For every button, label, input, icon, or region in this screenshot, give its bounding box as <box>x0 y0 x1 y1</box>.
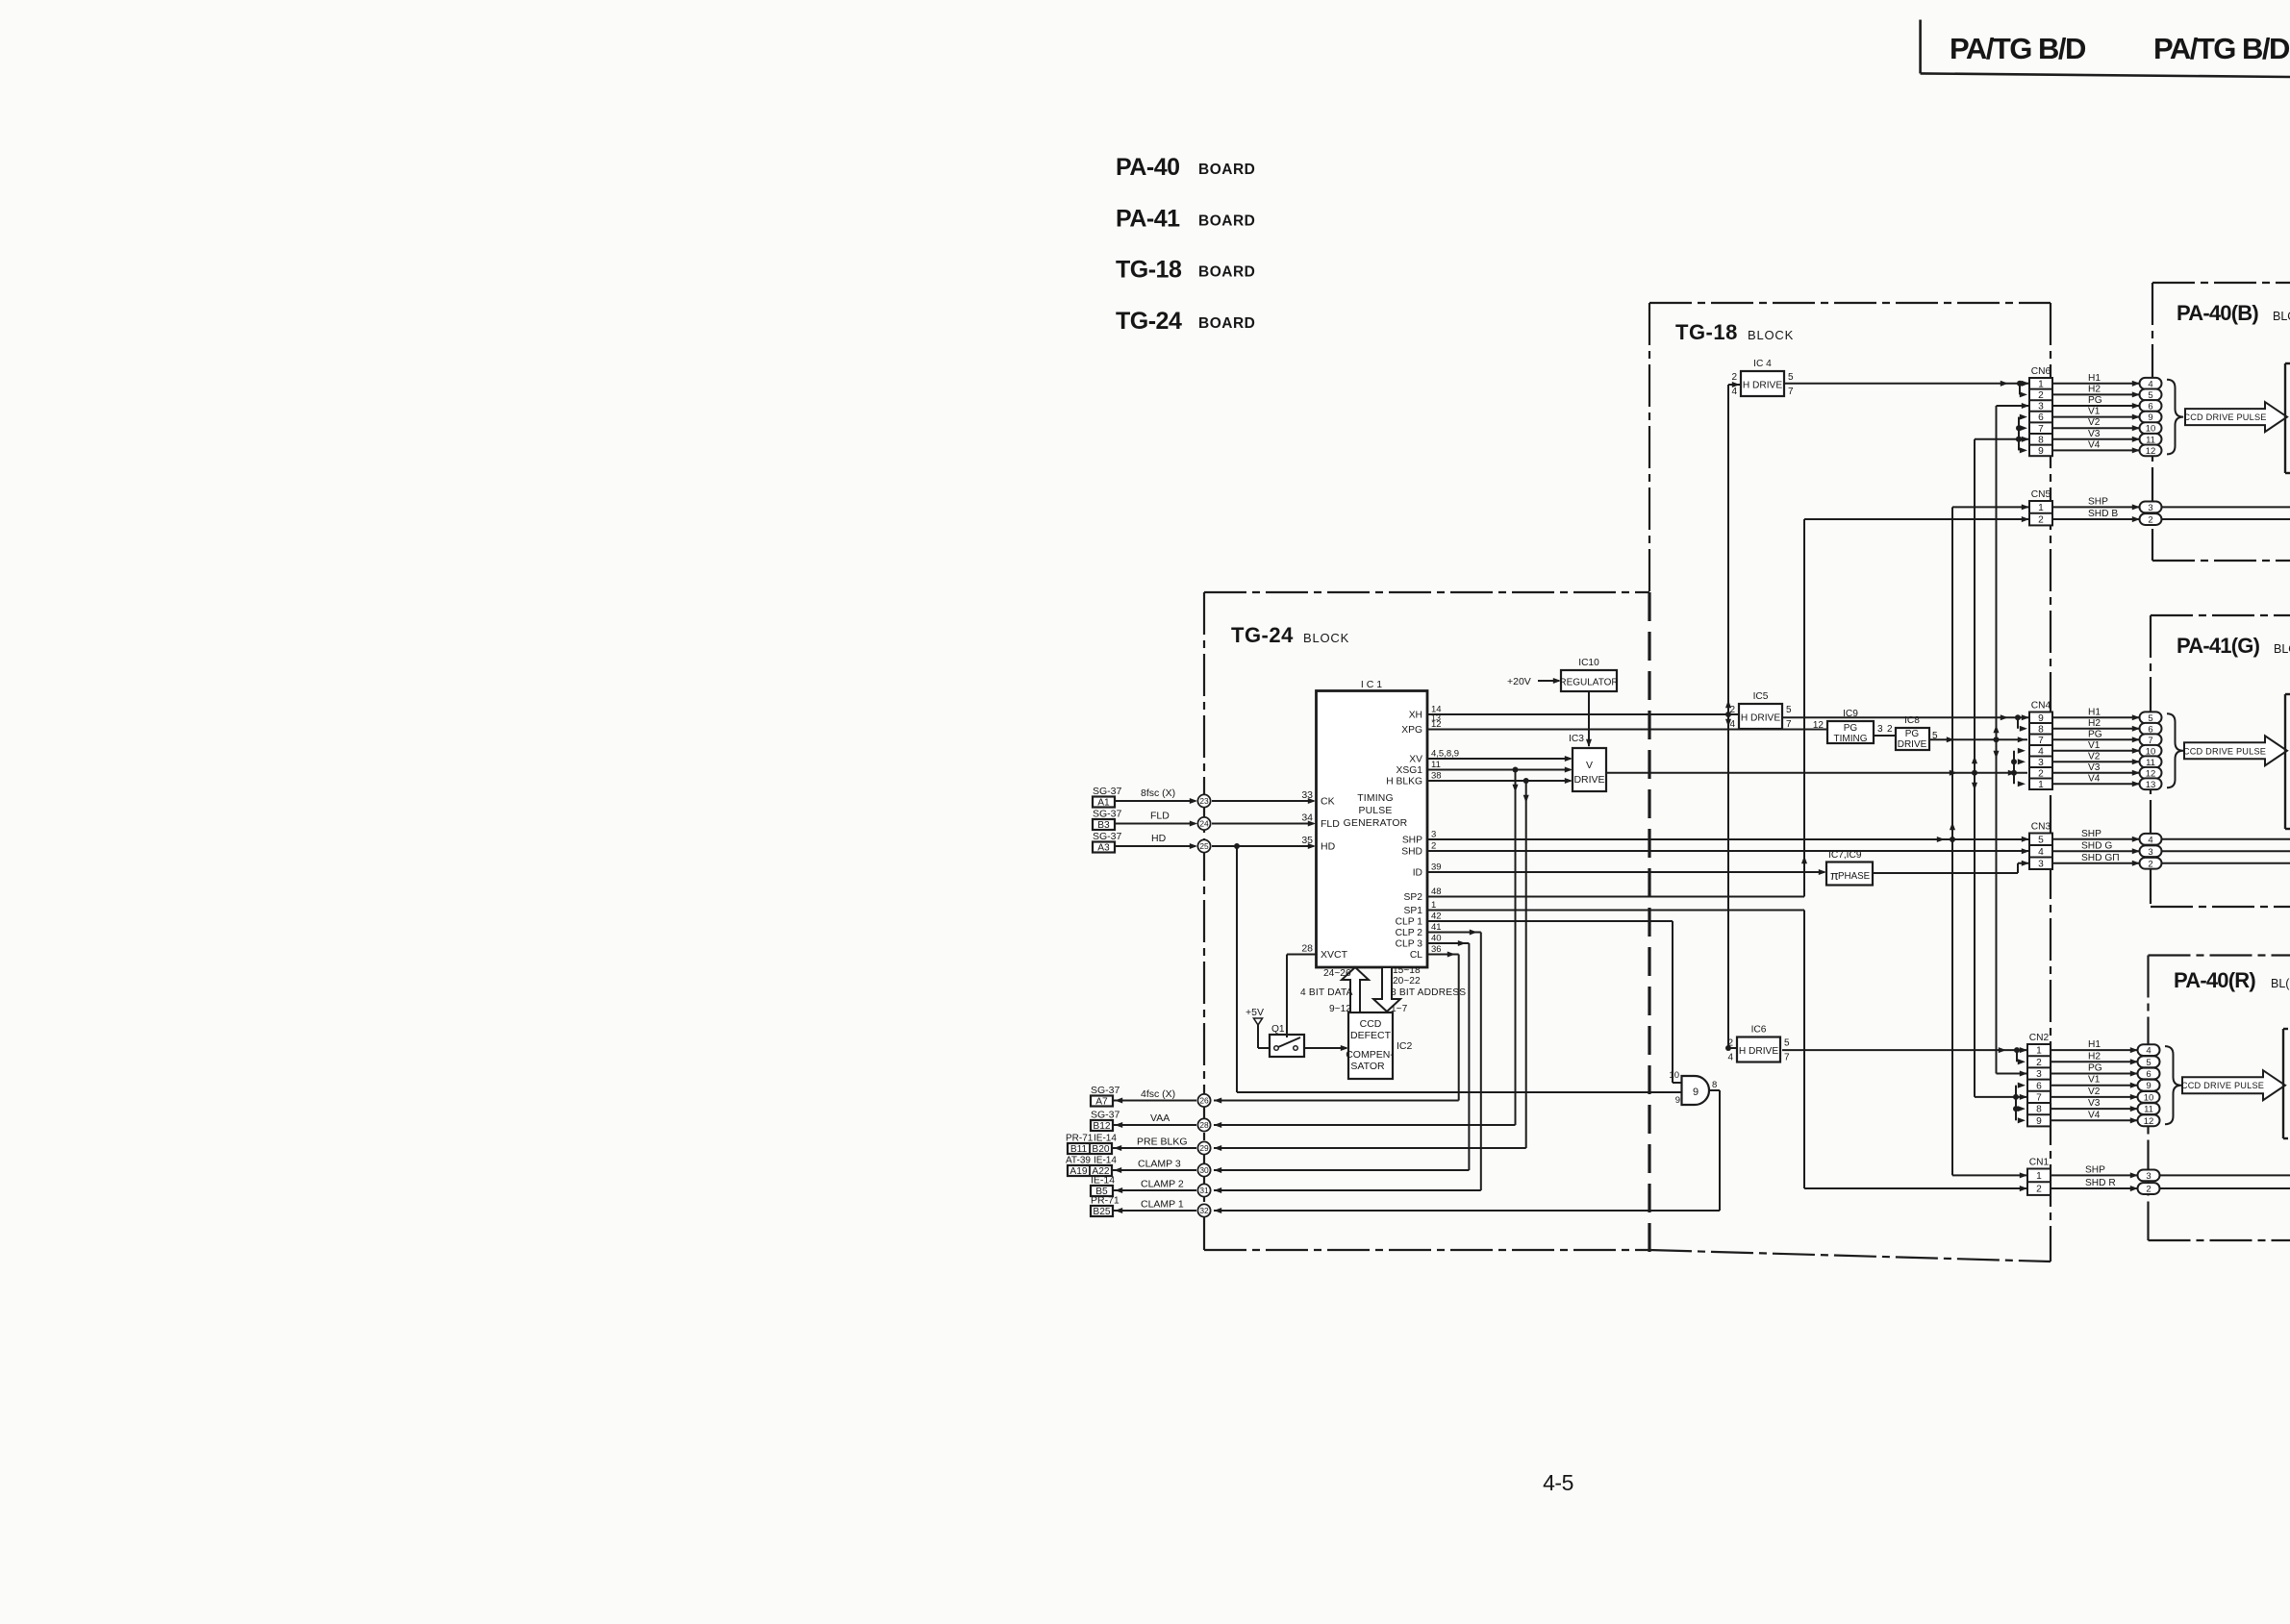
wire IC9 pin3 to IC8 pin2 <box>1874 724 1896 736</box>
wire net XSG1 into IC3 <box>1427 766 1573 772</box>
svg-text:CN1: CN1 <box>2029 1158 2050 1168</box>
svg-text:1~7: 1~7 <box>1391 1004 1408 1014</box>
svg-text:V1: V1 <box>2088 407 2101 417</box>
svg-text:V3: V3 <box>2088 1098 2101 1109</box>
svg-text:H1: H1 <box>2088 707 2101 717</box>
output connector AT-39/IE-14 A19|A22 (CLAMP 3) <box>1066 1156 1117 1178</box>
svg-text:38: 38 <box>1431 770 1442 781</box>
svg-text:SHD G: SHD G <box>2081 840 2112 851</box>
wire VAA line to terminal 28 <box>1214 1122 1516 1128</box>
node terminal 23 <box>1197 794 1210 807</box>
wire net H1-B (IC4 out to CN6 pin1) <box>1784 381 2029 387</box>
CCD DRIVE PULSE arrow (B) <box>2183 402 2287 432</box>
svg-text:IC 4: IC 4 <box>1753 359 1772 369</box>
brace PA-40(B) <box>2167 380 2183 455</box>
svg-text:2: 2 <box>2036 1185 2042 1195</box>
node terminal 31 <box>1197 1184 1210 1196</box>
svg-text:5: 5 <box>1788 372 1794 383</box>
wire V distribution vertical <box>1972 437 2029 1100</box>
CN2 pin ladder <box>2013 1047 2026 1123</box>
svg-text:CCD DRIVE PULSE: CCD DRIVE PULSE <box>2183 412 2266 422</box>
svg-text:33: 33 <box>1301 789 1313 801</box>
transistor Q1 (defect comp switch) <box>1270 1024 1304 1057</box>
CN6 pin ladder <box>2016 381 2027 454</box>
svg-text:TG-24: TG-24 <box>1116 308 1182 335</box>
node terminal 30 <box>1197 1163 1210 1176</box>
svg-text:CLP 2: CLP 2 <box>1396 928 1423 938</box>
svg-text:PG: PG <box>2088 395 2102 406</box>
wire gate output to terminal 32 (CLAMP 1) <box>1214 1090 1720 1213</box>
svg-text:CN5: CN5 <box>2031 489 2051 500</box>
svg-text:IC2: IC2 <box>1397 1040 1413 1052</box>
svg-text:BLO: BLO <box>2273 310 2290 323</box>
svg-text:AT-39: AT-39 <box>1066 1156 1091 1166</box>
svg-text:PR-71: PR-71 <box>1091 1195 1120 1207</box>
bus arrow 8 BIT ADDRESS (down) <box>1373 967 1400 1012</box>
svg-text:A19: A19 <box>1070 1166 1087 1177</box>
svg-text:30: 30 <box>1199 1165 1209 1175</box>
svg-text:PG: PG <box>2088 1063 2102 1074</box>
wires CN2 to PA-40(R) pins (H1..V4) <box>2051 1039 2138 1123</box>
svg-text:28: 28 <box>1199 1120 1209 1130</box>
PA-41(G) block title <box>2177 634 2290 658</box>
svg-text:BL(: BL( <box>2271 977 2290 990</box>
svg-text:31: 31 <box>1199 1186 1209 1195</box>
title box rule <box>1921 20 2290 78</box>
wire PG distribution vertical <box>1993 403 2029 1077</box>
svg-text:H DRIVE: H DRIVE <box>1743 381 1783 391</box>
svg-text:4: 4 <box>2148 835 2152 845</box>
svg-text:1: 1 <box>2038 780 2044 790</box>
svg-text:H DRIVE: H DRIVE <box>1739 1046 1779 1057</box>
svg-text:41: 41 <box>1431 922 1442 933</box>
input connector SG-37/A1 (8fsc) <box>1093 786 1122 809</box>
brace PA-41(G) <box>2167 713 2183 787</box>
wire XVCT from IC1 to Q1 branch <box>1287 954 1317 956</box>
wires CN6 to PA-40(B) pins (H1..V4) <box>2052 373 2140 454</box>
svg-text:SHP: SHP <box>2081 829 2101 839</box>
label +20V and feed wire <box>1507 676 1561 687</box>
svg-text:2: 2 <box>2148 515 2152 526</box>
svg-text:PA-40(B): PA-40(B) <box>2177 301 2258 325</box>
svg-text:Q1: Q1 <box>1271 1024 1285 1035</box>
svg-text:V2: V2 <box>2088 751 2101 762</box>
svg-text:CLP 3: CLP 3 <box>1396 939 1423 950</box>
node terminal 25 <box>1197 839 1210 852</box>
IC IC5 (H DRIVE) <box>1729 691 1792 730</box>
board list item PA-41 BOARD <box>1116 206 1255 233</box>
svg-text:V2: V2 <box>2088 1087 2101 1097</box>
svg-text:8: 8 <box>1712 1080 1717 1090</box>
svg-text:IE-14: IE-14 <box>1094 1134 1117 1144</box>
svg-text:40: 40 <box>1431 933 1442 943</box>
svg-text:PULSE: PULSE <box>1358 806 1392 816</box>
svg-text:CN4: CN4 <box>2031 701 2051 712</box>
IC U2 (IC2 CCD DEFECT COMPENSATOR) <box>1346 1012 1412 1079</box>
svg-text:+20V: +20V <box>1507 676 1531 687</box>
svg-text:H1: H1 <box>2088 1039 2101 1050</box>
svg-text:FLD: FLD <box>1321 818 1340 830</box>
connector CN1 <box>2027 1158 2051 1195</box>
svg-text:24~26: 24~26 <box>1323 968 1351 979</box>
svg-text:SP2: SP2 <box>1404 892 1423 903</box>
wires PA-40(B) SHP/SHD to page edge <box>2162 507 2290 519</box>
PA-40(B) CCD pins 4-12 <box>2140 378 2162 457</box>
svg-text:PA-41: PA-41 <box>1116 206 1180 233</box>
svg-text:CCD: CCD <box>1360 1018 1382 1030</box>
svg-text:15~18: 15~18 <box>1393 965 1421 976</box>
svg-text:42: 42 <box>1431 911 1442 921</box>
wire H BLKG branch down to PRE BLKG line <box>1523 781 1529 1148</box>
svg-text:10: 10 <box>1669 1070 1679 1081</box>
svg-text:PR-71: PR-71 <box>1066 1134 1094 1144</box>
svg-text:ID: ID <box>1413 868 1422 879</box>
svg-text:SHD B: SHD B <box>2088 509 2118 519</box>
svg-text:36: 36 <box>1431 944 1442 955</box>
svg-text:SG-37: SG-37 <box>1091 1110 1120 1121</box>
wire net H BLKG into IC3 <box>1427 778 1573 784</box>
svg-text:V1: V1 <box>2088 740 2101 751</box>
output connector IE-14/B5 (CLAMP 2) <box>1091 1175 1115 1198</box>
svg-text:BLO: BLO <box>2274 642 2290 656</box>
wire net SP2 up to SHD B <box>1427 516 2029 896</box>
svg-text:V3: V3 <box>2088 429 2101 439</box>
svg-text:XV: XV <box>1409 755 1422 765</box>
svg-text:7: 7 <box>1788 387 1794 397</box>
wire terminal 29 to B20 <box>1112 1137 1196 1152</box>
input connector SG-37/B3 (FLD) <box>1093 809 1122 832</box>
wire net SP1 down to SHD R <box>1427 911 2027 1192</box>
svg-text:4: 4 <box>1731 387 1737 397</box>
svg-text:CL: CL <box>1410 950 1422 961</box>
svg-text:B20: B20 <box>1092 1144 1109 1155</box>
wire terminal 24 to IC1 FLD <box>1212 820 1316 826</box>
svg-text:SHP: SHP <box>1402 836 1422 846</box>
IC U10 (IC10 REGULATOR) <box>1559 658 1618 691</box>
svg-text:IC3: IC3 <box>1569 734 1584 744</box>
svg-text:TIMING: TIMING <box>1834 734 1868 744</box>
wire terminal 23 to IC1 CK <box>1212 798 1316 804</box>
svg-text:BLOCK: BLOCK <box>1303 631 1349 645</box>
svg-text:SG-37: SG-37 <box>1093 786 1122 797</box>
svg-text:BOARD: BOARD <box>1198 264 1255 281</box>
PA-40(B) block frame <box>2152 283 2290 561</box>
svg-text:PA/TG B/D: PA/TG B/D <box>2153 32 2290 65</box>
board list item TG-24 BOARD <box>1116 308 1255 335</box>
brace PA-40(R) <box>2165 1046 2181 1124</box>
IC U7 (IC7,IC9 pi-PHASE) <box>1826 850 1873 886</box>
output connector SG-37/B12 (VAA) <box>1091 1110 1120 1133</box>
svg-text:4: 4 <box>2146 1046 2151 1057</box>
wire net H1-R (IC6 out to CN2 pin1) <box>1782 1047 2027 1053</box>
gate 9 (clamp AND gate) <box>1669 1070 1717 1106</box>
svg-text:H DRIVE: H DRIVE <box>1741 713 1781 724</box>
svg-text:39: 39 <box>1431 862 1442 872</box>
IC1 left pin labels <box>1301 789 1347 961</box>
svg-text:48: 48 <box>1431 887 1442 897</box>
svg-text:B25: B25 <box>1093 1207 1110 1217</box>
connector CN6 <box>2029 366 2052 457</box>
svg-text:5: 5 <box>2146 1058 2151 1068</box>
svg-text:CN3: CN3 <box>2031 822 2051 833</box>
svg-text:PRE BLKG: PRE BLKG <box>1137 1137 1188 1148</box>
svg-text:HD: HD <box>1151 833 1167 844</box>
svg-text:SHD R: SHD R <box>2085 1178 2116 1188</box>
svg-text:FLD: FLD <box>1150 811 1170 822</box>
svg-text:4 BIT DATA: 4 BIT DATA <box>1300 987 1353 998</box>
svg-text:5: 5 <box>2038 835 2044 845</box>
svg-text:PA-40(R): PA-40(R) <box>2174 968 2255 992</box>
svg-text:11: 11 <box>2144 1105 2153 1115</box>
wire IC10 to IC3 <box>1586 691 1592 747</box>
node terminal 24 <box>1197 817 1210 830</box>
svg-text:13: 13 <box>2146 780 2156 790</box>
svg-text:BOARD: BOARD <box>1198 315 1255 332</box>
svg-text:5: 5 <box>1784 1038 1790 1049</box>
svg-text:3: 3 <box>2148 503 2152 513</box>
input connector SG-37/A3 (HD) <box>1093 831 1122 854</box>
svg-text:8: 8 <box>2036 1105 2042 1115</box>
svg-text:DRIVE: DRIVE <box>1573 774 1604 786</box>
svg-text:SHP: SHP <box>2088 496 2108 507</box>
wire terminal 30 to A22 <box>1112 1159 1196 1174</box>
wire net V (IC3 out to CN4 pin2) <box>1606 770 2027 776</box>
svg-text:CLAMP 1: CLAMP 1 <box>1141 1199 1184 1211</box>
svg-text:COMPEN-: COMPEN- <box>1346 1049 1394 1061</box>
svg-text:7: 7 <box>1784 1053 1790 1063</box>
svg-text:IC10: IC10 <box>1578 658 1599 668</box>
svg-text:CLAMP 3: CLAMP 3 <box>1138 1159 1181 1170</box>
svg-text:PA/TG B/D: PA/TG B/D <box>1950 32 2086 65</box>
svg-text:2: 2 <box>2148 859 2152 869</box>
svg-text:8 BIT ADDRESS: 8 BIT ADDRESS <box>1391 987 1466 998</box>
connector CN3 <box>2029 822 2052 870</box>
svg-text:6: 6 <box>2036 1081 2042 1091</box>
wire net CLP3 to terminal 30 <box>1214 940 1469 1173</box>
svg-text:BOARD: BOARD <box>1198 213 1255 230</box>
svg-text:BOARD: BOARD <box>1198 162 1255 178</box>
TG-18 block title <box>1675 320 1794 344</box>
svg-text:34: 34 <box>1301 812 1313 824</box>
IC U9 (IC9 PG TIMING) <box>1813 709 1874 744</box>
svg-text:PHASE: PHASE <box>1838 871 1871 882</box>
connector CN5 <box>2029 489 2052 526</box>
wire terminal 32 to B25 <box>1113 1199 1196 1214</box>
svg-text:H2: H2 <box>2088 384 2101 394</box>
wire Q1 to IC2 <box>1304 1045 1348 1051</box>
wire XSG1 branch down to VAA line <box>1512 770 1518 1126</box>
wires CN3 to PA-41(G) pins (SHP,SHD G,SHD GTL) <box>2052 829 2140 866</box>
svg-text:4,5,8,9: 4,5,8,9 <box>1431 748 1459 759</box>
svg-text:CN2: CN2 <box>2029 1033 2050 1043</box>
svg-text:DRIVE: DRIVE <box>1898 739 1927 750</box>
wires CN4 to PA-41(G) pins (H1..V4) <box>2052 707 2140 787</box>
connector CN4 <box>2029 701 2052 790</box>
svg-text:VAA: VAA <box>1150 1112 1170 1124</box>
svg-text:9: 9 <box>1675 1095 1680 1106</box>
svg-text:IC5: IC5 <box>1753 691 1769 702</box>
svg-text:6: 6 <box>2146 1069 2151 1080</box>
svg-text:2: 2 <box>2038 515 2044 526</box>
svg-text:28: 28 <box>1301 943 1313 955</box>
svg-text:3: 3 <box>1431 829 1436 839</box>
PA-40(R) CCD pins 4-12 <box>2138 1044 2160 1127</box>
svg-text:23: 23 <box>1199 796 1209 806</box>
wire XVCT to Q1 gate <box>1286 955 1288 1038</box>
IC IC4 (H DRIVE) <box>1731 359 1794 397</box>
wires PA-41(G) SHP/SHD to page edge <box>2162 839 2290 863</box>
svg-text:2: 2 <box>2146 1185 2151 1195</box>
svg-text:12: 12 <box>2144 1116 2154 1127</box>
bus arrow 4 BIT DATA (up) <box>1342 967 1369 1012</box>
svg-text:IE-14: IE-14 <box>1094 1156 1117 1166</box>
svg-text:PG: PG <box>2088 729 2102 739</box>
svg-text:XSG1: XSG1 <box>1397 765 1423 776</box>
svg-text:GENERATOR: GENERATOR <box>1344 818 1408 829</box>
svg-text:8fsc (X): 8fsc (X) <box>1141 787 1175 799</box>
svg-text:SHD GΠ: SHD GΠ <box>2081 853 2120 863</box>
PA-40(R) block title <box>2174 968 2290 992</box>
svg-text:SG-37: SG-37 <box>1093 809 1122 820</box>
svg-text:4: 4 <box>2038 847 2044 858</box>
wire 8fsc(X) A1 to terminal 23 <box>1115 787 1197 804</box>
svg-text:IE-14: IE-14 <box>1091 1175 1115 1187</box>
svg-text:TG-24: TG-24 <box>1231 623 1294 647</box>
wires CN1 to PA-40(R) pins (SHP,SHD R) <box>2051 1164 2138 1191</box>
wire terminal 28 to B12 <box>1113 1112 1196 1128</box>
svg-text:V1: V1 <box>2088 1075 2101 1086</box>
svg-text:V2: V2 <box>2088 417 2101 428</box>
IC IC6 (H DRIVE) <box>1727 1025 1790 1063</box>
svg-text:3: 3 <box>2038 859 2044 869</box>
svg-text:SG-37: SG-37 <box>1091 1085 1120 1096</box>
power +5V symbol <box>1246 1007 1270 1048</box>
svg-text:TG-18: TG-18 <box>1116 257 1182 284</box>
svg-text:CK: CK <box>1321 796 1335 808</box>
svg-text:B3: B3 <box>1097 820 1110 831</box>
TG-18 block frame <box>1649 303 2051 1262</box>
svg-text:2: 2 <box>2036 1058 2042 1068</box>
svg-text:26: 26 <box>1199 1096 1209 1106</box>
svg-text:1: 1 <box>2036 1046 2042 1057</box>
wires CN5 to PA-40(B) pins (SHP,SHD B) <box>2052 496 2140 522</box>
svg-text:CN6: CN6 <box>2031 366 2051 377</box>
svg-text:7: 7 <box>1786 719 1792 730</box>
svg-text:9: 9 <box>1693 1087 1699 1098</box>
svg-text:B12: B12 <box>1093 1121 1110 1132</box>
op-amp/IC U1 box (IC1 TIMING PULSE GENERATOR) <box>1317 679 1428 967</box>
svg-text:TG-18: TG-18 <box>1675 320 1738 344</box>
node terminal 32 <box>1197 1204 1210 1216</box>
wire terminal 26 to A7 <box>1113 1088 1196 1104</box>
wire net SHD (IC1 pin2 to CN3 pin4) <box>1427 848 2029 854</box>
svg-text:3: 3 <box>2148 847 2152 858</box>
CCD bracket (B block, page edge) <box>2285 363 2290 473</box>
svg-text:XVCT: XVCT <box>1321 949 1348 961</box>
svg-text:TIMING: TIMING <box>1357 793 1394 804</box>
svg-text:CCD DRIVE PULSE: CCD DRIVE PULSE <box>2181 1081 2264 1090</box>
wire net CLP2 to terminal 31 <box>1214 929 1481 1193</box>
svg-text:PA-41(G): PA-41(G) <box>2177 634 2260 658</box>
PA-41(G) CCD pins 5-13 <box>2140 712 2162 789</box>
svg-text:XPG: XPG <box>1401 725 1422 736</box>
svg-text:H BLKG: H BLKG <box>1386 777 1422 787</box>
svg-text:24: 24 <box>1199 819 1209 829</box>
svg-text:3: 3 <box>1877 724 1883 735</box>
PA-41(G) block frame <box>2151 615 2290 907</box>
svg-text:9~12: 9~12 <box>1329 1004 1351 1014</box>
wire terminal 25 to IC1 HD (junction) <box>1212 843 1316 849</box>
svg-text:35: 35 <box>1301 835 1313 846</box>
TG-24 block title <box>1231 623 1349 647</box>
svg-text:SATOR: SATOR <box>1350 1061 1385 1072</box>
output connector SG-37/A7 (4fsc) <box>1091 1085 1120 1108</box>
svg-text:H1: H1 <box>2088 373 2101 384</box>
PA-40(R) pins 3,2 (SHP/SHD R) <box>2138 1169 2160 1194</box>
svg-text:V4: V4 <box>2088 773 2101 784</box>
svg-text:4: 4 <box>1727 1053 1733 1063</box>
svg-text:2: 2 <box>1887 724 1893 735</box>
svg-text:I C 1: I C 1 <box>1361 679 1382 690</box>
PA-40(B) pins 3,2 (SHP/SHD B) <box>2140 501 2162 525</box>
svg-text:10: 10 <box>2144 1092 2154 1103</box>
svg-text:2: 2 <box>1731 372 1737 383</box>
svg-text:4-5: 4-5 <box>1543 1470 1573 1495</box>
connector CN2 <box>2027 1033 2051 1127</box>
svg-text:SG-37: SG-37 <box>1093 831 1122 842</box>
node terminal 29 <box>1197 1141 1210 1154</box>
svg-text:A3: A3 <box>1097 843 1110 854</box>
svg-text:V4: V4 <box>2088 1110 2101 1120</box>
CCD bracket (G block, page edge) <box>2285 694 2290 829</box>
svg-text:B11: B11 <box>1070 1144 1088 1155</box>
node terminal 26 <box>1197 1094 1210 1107</box>
CCD DRIVE PULSE arrow (G) <box>2183 736 2287 765</box>
svg-text:9: 9 <box>2036 1116 2042 1127</box>
svg-text:1: 1 <box>1431 900 1436 911</box>
svg-text:1: 1 <box>2038 503 2044 513</box>
PA-40(B) block title <box>2177 301 2290 325</box>
output connector PR-71/B25 (CLAMP 1) <box>1091 1195 1120 1218</box>
svg-text:CLP 1: CLP 1 <box>1396 917 1423 928</box>
svg-text:9: 9 <box>2038 446 2044 457</box>
svg-text:REGULATOR: REGULATOR <box>1559 678 1618 688</box>
TG-24 block frame <box>1204 592 1649 1256</box>
svg-text:2: 2 <box>1431 840 1436 851</box>
svg-text:7: 7 <box>2036 1093 2042 1104</box>
PA-40(R) block frame <box>2149 956 2290 1241</box>
svg-text:3: 3 <box>2036 1069 2042 1080</box>
svg-text:11: 11 <box>1431 760 1441 770</box>
CN4 pin ladder <box>2011 714 2027 787</box>
IC U8 (IC8 PG DRIVE) <box>1896 715 1938 750</box>
wire net CL to terminal 26 <box>1214 951 1459 1103</box>
svg-text:SHP: SHP <box>2085 1164 2105 1175</box>
wire net XV into IC3 <box>1427 756 1573 762</box>
IC U3 (IC3 V DRIVE) <box>1569 734 1606 791</box>
svg-text:32: 32 <box>1199 1206 1209 1215</box>
wire pi-PHASE out to CN3 pin3 <box>1873 861 2029 873</box>
svg-text:12: 12 <box>2146 446 2156 457</box>
wire FLD B3 to terminal 24 <box>1115 811 1197 827</box>
svg-text:V3: V3 <box>2088 762 2101 773</box>
svg-text:HD: HD <box>1321 841 1336 853</box>
svg-text:BLOCK: BLOCK <box>1748 328 1794 342</box>
output connector PR-71/IE-14 B11|B20 (PRE BLKG) <box>1066 1134 1117 1156</box>
svg-text:PG: PG <box>1905 729 1920 739</box>
IC1 right pin labels <box>1386 704 1459 961</box>
svg-text:3: 3 <box>2146 1171 2151 1182</box>
